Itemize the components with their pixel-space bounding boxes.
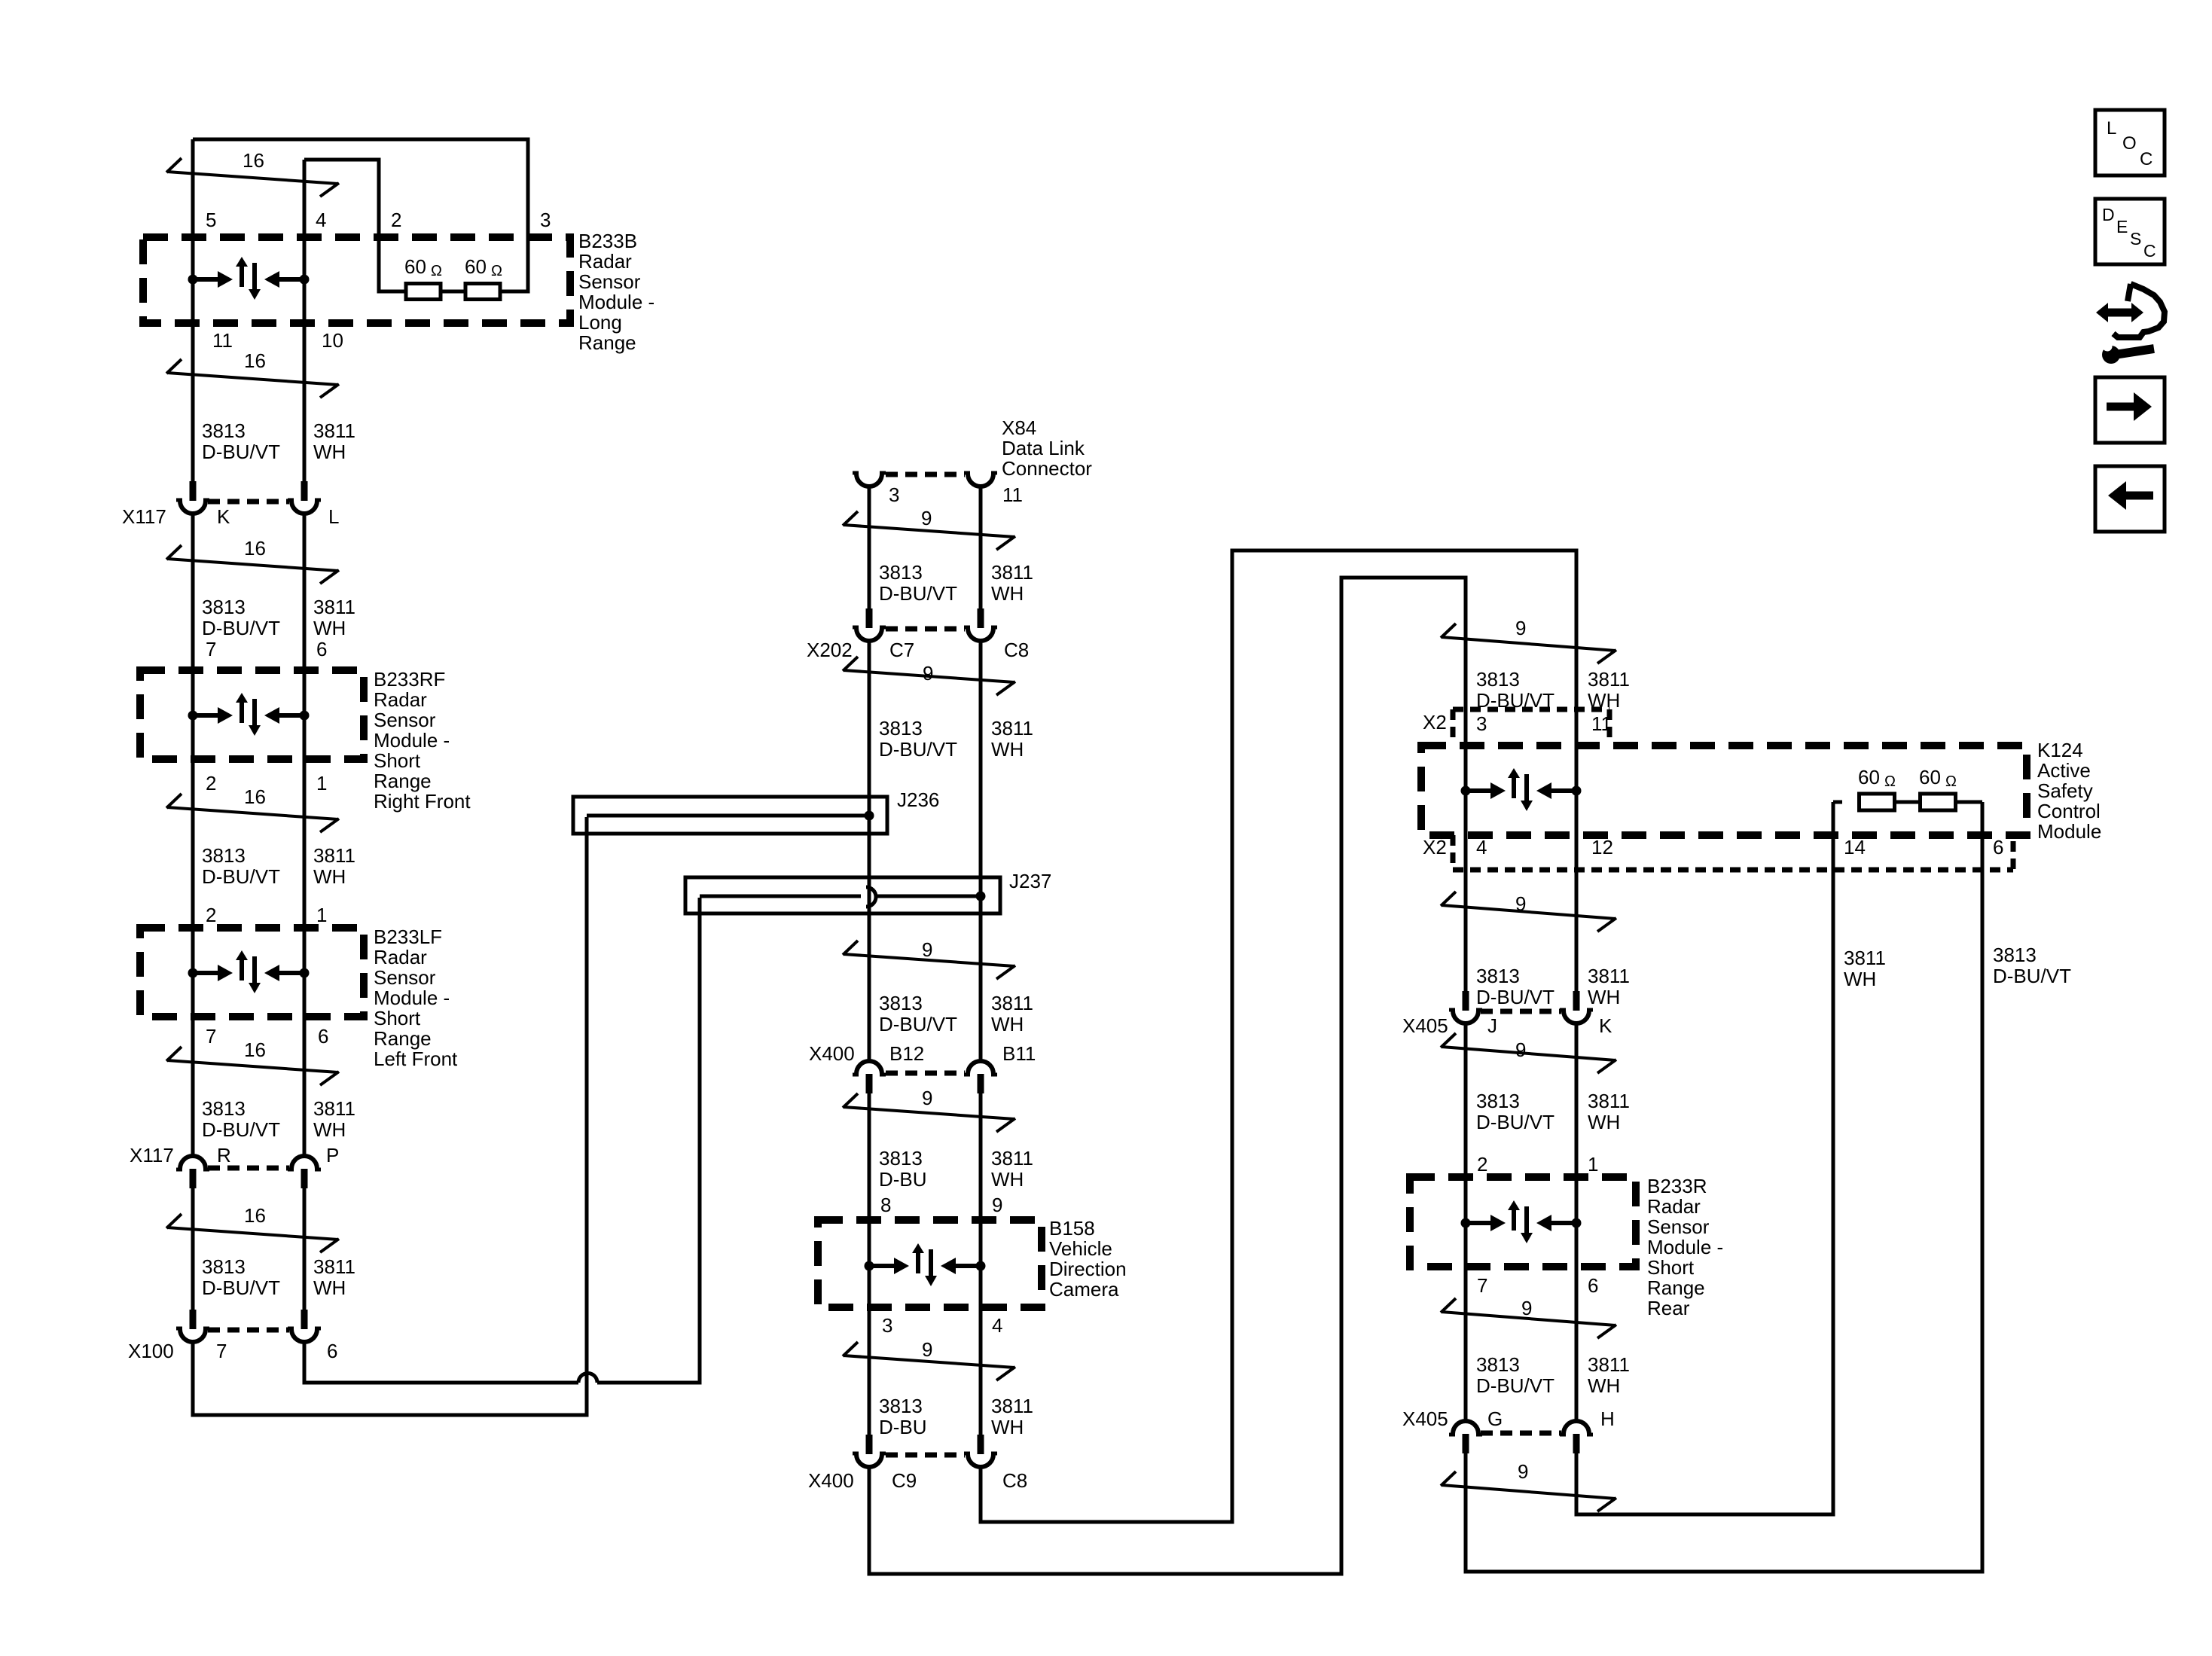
svg-text:9: 9 — [1521, 1297, 1532, 1319]
svg-text:Sensor: Sensor — [374, 709, 436, 731]
svg-text:D-BU/VT: D-BU/VT — [1476, 986, 1555, 1008]
svg-text:D: D — [2102, 205, 2115, 224]
connector X117 terminal L — [301, 481, 308, 501]
twisted pair symbol 9 — [1442, 1485, 1616, 1499]
svg-text:D-BU/VT: D-BU/VT — [1993, 965, 2071, 987]
J237 conductor hop over 3813 wire — [866, 887, 876, 907]
connector X400 terminal C9 — [866, 1435, 873, 1454]
K124 resistor conductor right — [1956, 801, 1982, 804]
twisted pair symbol 16 — [167, 373, 338, 385]
icon box DESC — [2095, 199, 2165, 264]
svg-text:B233LF: B233LF — [374, 926, 442, 948]
svg-text:Active: Active — [2037, 759, 2091, 782]
svg-text:Direction: Direction — [1049, 1258, 1127, 1280]
svg-text:Range: Range — [374, 770, 432, 792]
wire 3813 leg to resistors — [1466, 802, 1982, 1572]
connector X202 terminal C8 — [978, 608, 984, 628]
svg-text:3813: 3813 — [879, 992, 923, 1014]
bus direction symbol in B233R — [1461, 1218, 1471, 1228]
svg-text:3813: 3813 — [202, 419, 246, 442]
connector X100 dashes — [208, 1328, 289, 1333]
svg-text:3811: 3811 — [1844, 947, 1886, 969]
svg-text:Ω: Ω — [1945, 773, 1957, 790]
svg-text:X117: X117 — [130, 1144, 174, 1167]
svg-text:D-BU/VT: D-BU/VT — [1476, 1374, 1555, 1397]
svg-text:9: 9 — [992, 1194, 1002, 1216]
wire 3811 X117 to B233RF — [303, 514, 307, 670]
splice J237 bus bar box — [685, 877, 1000, 913]
svg-text:B158: B158 — [1049, 1217, 1095, 1240]
svg-text:Ω: Ω — [1884, 773, 1896, 790]
svg-text:Range: Range — [578, 331, 636, 354]
svg-text:Radar: Radar — [578, 250, 632, 273]
svg-text:C8: C8 — [1002, 1469, 1027, 1492]
svg-text:8: 8 — [880, 1194, 891, 1216]
svg-text:11: 11 — [1591, 712, 1612, 735]
svg-text:D-BU/VT: D-BU/VT — [1476, 1111, 1555, 1133]
svg-text:2: 2 — [1477, 1153, 1487, 1176]
svg-text:16: 16 — [244, 537, 266, 560]
svg-text:1: 1 — [1588, 1153, 1598, 1176]
svg-text:3813: 3813 — [202, 1255, 246, 1278]
svg-text:9: 9 — [922, 938, 932, 961]
svg-text:WH: WH — [991, 1416, 1024, 1438]
twisted pair symbol 9 — [1442, 905, 1616, 919]
svg-text:Camera: Camera — [1049, 1278, 1119, 1301]
wire 3811 through B233R — [1575, 1177, 1579, 1420]
svg-text:3811: 3811 — [1588, 1090, 1630, 1112]
svg-text:Module -: Module - — [578, 291, 654, 313]
svg-text:3811: 3811 — [1588, 668, 1630, 691]
wire 3811 right vertical B233B to X117 — [303, 160, 307, 482]
svg-text:3811: 3811 — [313, 1097, 355, 1120]
svg-text:9: 9 — [1518, 1460, 1528, 1483]
wire 3811 J237 to X400 — [979, 896, 983, 1061]
wire 3813 X117 to B233RF — [191, 514, 195, 670]
wire 3813 D-BU/VT from B233B pin 5 top loop to pin 3 — [193, 139, 528, 291]
svg-text:Left Front: Left Front — [374, 1048, 458, 1070]
connector X2 top band — [1453, 707, 1609, 712]
wire 3811 X202 to J237 — [979, 642, 983, 896]
svg-text:J237: J237 — [1009, 870, 1051, 892]
svg-text:3811: 3811 — [1588, 1353, 1630, 1376]
connector X400 terminal B11 — [968, 1061, 993, 1074]
twisted pair symbol 16 — [167, 807, 338, 819]
svg-text:Module: Module — [2037, 820, 2101, 843]
svg-text:11: 11 — [1002, 483, 1023, 506]
connector X84 terminal 11 — [968, 474, 993, 486]
svg-text:3811: 3811 — [991, 1147, 1033, 1170]
svg-text:Vehicle: Vehicle — [1049, 1237, 1112, 1260]
svg-text:Module -: Module - — [374, 987, 450, 1009]
svg-text:3813: 3813 — [879, 1395, 923, 1417]
svg-text:Connector: Connector — [1002, 457, 1092, 480]
svg-text:2: 2 — [206, 772, 216, 794]
wire 3813 X117 to X100 — [191, 1188, 195, 1310]
wire 3813 into K124 — [1464, 633, 1468, 791]
svg-text:WH: WH — [313, 1118, 346, 1141]
svg-text:3811: 3811 — [991, 561, 1033, 584]
wire 3813 X400 to B158 — [868, 1093, 871, 1220]
svg-text:6: 6 — [1993, 836, 2003, 858]
svg-text:B233R: B233R — [1647, 1175, 1707, 1197]
twisted pair symbol 9 — [844, 954, 1014, 966]
wire 3813 through B158 — [868, 1220, 871, 1436]
connector X84 dashes — [886, 472, 965, 477]
svg-text:6: 6 — [327, 1340, 337, 1362]
wire 3811 hop to J237 leg — [597, 898, 700, 1383]
junction dot J237 — [976, 892, 986, 901]
wire 3811 X117 to X100 — [303, 1188, 307, 1310]
radar sensor module B233RF dashed box — [140, 670, 364, 759]
connector X117 K-L dashes — [208, 499, 289, 505]
svg-text:L: L — [2107, 118, 2116, 139]
svg-text:3811: 3811 — [313, 596, 355, 618]
svg-text:3: 3 — [882, 1314, 892, 1337]
connector X400 B12-B11 dashes — [886, 1071, 965, 1076]
J237 bus conductor right of hop — [874, 895, 981, 898]
svg-text:Short: Short — [374, 749, 421, 772]
svg-text:3813: 3813 — [1993, 944, 2037, 966]
svg-text:O: O — [2122, 133, 2137, 154]
svg-text:16: 16 — [244, 349, 266, 372]
svg-text:Module -: Module - — [1647, 1236, 1723, 1258]
svg-text:C: C — [2140, 149, 2153, 169]
wire 3811 through B233RF — [303, 670, 307, 928]
icon box LOC — [2095, 110, 2165, 175]
svg-text:S: S — [2130, 229, 2141, 249]
twisted pair symbol 16 — [167, 1060, 338, 1072]
svg-text:D-BU/VT: D-BU/VT — [202, 1118, 280, 1141]
svg-text:1: 1 — [316, 904, 327, 926]
svg-text:Short: Short — [374, 1007, 421, 1029]
connector X400 C9-C8 dashes — [886, 1453, 965, 1458]
svg-text:G: G — [1487, 1407, 1503, 1430]
svg-text:K: K — [1599, 1014, 1612, 1037]
splice J236 bus bar box — [573, 797, 887, 834]
svg-text:7: 7 — [216, 1340, 227, 1362]
wire between B233B resistors — [441, 290, 466, 294]
svg-text:1: 1 — [316, 772, 327, 794]
active safety control module K124 dashed box — [1421, 746, 2027, 835]
wire 3813 X100 down-right to J236 leg — [193, 817, 587, 1415]
twisted pair symbol 9 — [1442, 1312, 1616, 1325]
svg-text:WH: WH — [1588, 986, 1620, 1008]
svg-text:Long: Long — [578, 311, 622, 334]
twisted pair symbol 16 — [167, 1228, 338, 1240]
svg-text:3813: 3813 — [1476, 1353, 1520, 1376]
connector X117 terminal P — [291, 1156, 317, 1169]
connector X117 terminal K — [190, 481, 197, 501]
connector X405 terminal K — [1573, 991, 1580, 1011]
twisted pair symbol 9 — [844, 670, 1014, 682]
connector X117 R-P dashes — [208, 1166, 289, 1171]
svg-text:C8: C8 — [1004, 639, 1029, 661]
wire 3813 J236 to X400 — [868, 816, 871, 1061]
svg-text:3811: 3811 — [313, 1255, 355, 1278]
connector X100 terminal 7 — [190, 1310, 197, 1329]
svg-text:16: 16 — [244, 785, 266, 808]
svg-text:Radar: Radar — [374, 946, 427, 968]
icon box left arrow — [2095, 466, 2165, 532]
svg-text:7: 7 — [1477, 1274, 1487, 1297]
svg-text:3813: 3813 — [202, 1097, 246, 1120]
svg-text:3813: 3813 — [1476, 668, 1520, 691]
svg-text:3: 3 — [540, 209, 551, 231]
svg-text:3811: 3811 — [991, 1395, 1033, 1417]
svg-text:D-BU: D-BU — [879, 1416, 927, 1438]
svg-text:B11: B11 — [1002, 1042, 1036, 1065]
J236 bus conductor — [587, 814, 869, 818]
svg-text:X202: X202 — [807, 639, 853, 661]
svg-text:3813: 3813 — [202, 596, 246, 618]
svg-text:3813: 3813 — [1476, 965, 1520, 987]
svg-text:3: 3 — [889, 483, 899, 506]
twisted pair symbol 9 — [1442, 1047, 1616, 1060]
svg-text:3811: 3811 — [1588, 965, 1630, 987]
svg-text:6: 6 — [316, 638, 327, 660]
connector X117 terminal R — [180, 1156, 206, 1169]
resistor 60 ohm (K124 left) — [1860, 794, 1895, 810]
svg-text:Safety: Safety — [2037, 779, 2093, 802]
svg-text:WH: WH — [1844, 968, 1876, 990]
svg-text:H: H — [1600, 1407, 1615, 1430]
svg-text:3811: 3811 — [991, 717, 1033, 740]
svg-text:D-BU/VT: D-BU/VT — [202, 865, 280, 888]
svg-text:WH: WH — [991, 1168, 1024, 1191]
svg-text:Rear: Rear — [1647, 1297, 1690, 1319]
wire 3813 left vertical B233B to X117 — [191, 139, 195, 482]
bus direction symbol in B158 — [865, 1261, 874, 1271]
bus direction symbol in K124 — [1461, 786, 1471, 796]
svg-text:7: 7 — [206, 1025, 216, 1048]
svg-text:X84: X84 — [1002, 416, 1036, 439]
svg-text:C7: C7 — [889, 639, 914, 661]
svg-text:Right Front: Right Front — [374, 790, 471, 813]
svg-text:9: 9 — [1515, 892, 1526, 915]
svg-text:C9: C9 — [892, 1469, 917, 1492]
connector X400 terminal C8 — [978, 1435, 984, 1454]
svg-text:WH: WH — [1588, 1374, 1620, 1397]
svg-text:WH: WH — [313, 865, 346, 888]
svg-text:3811: 3811 — [991, 992, 1033, 1014]
svg-text:Data Link: Data Link — [1002, 437, 1085, 459]
junction dot J236 — [865, 811, 874, 821]
svg-text:9: 9 — [1515, 617, 1526, 639]
wire 3813 K124 to X405 — [1464, 791, 1468, 992]
svg-text:Ω: Ω — [491, 263, 502, 279]
connector X405 terminal J — [1463, 991, 1469, 1011]
svg-text:J236: J236 — [897, 788, 939, 811]
svg-text:B233RF: B233RF — [374, 668, 445, 691]
svg-text:7: 7 — [206, 638, 216, 660]
connector X84 terminal 3 — [856, 474, 882, 486]
svg-text:60: 60 — [1858, 766, 1880, 788]
connector X202 terminal C7 — [866, 608, 873, 628]
svg-text:X405: X405 — [1402, 1407, 1448, 1430]
wire 3811 leg to resistors — [1576, 802, 1833, 1514]
connector X405 terminal G — [1453, 1421, 1478, 1434]
svg-text:J: J — [1487, 1014, 1497, 1037]
svg-text:WH: WH — [313, 441, 346, 463]
resistor 60 ohm (B233B right) — [465, 284, 500, 300]
svg-text:9: 9 — [922, 1338, 932, 1361]
wire 3811 X400-C8 route to right chain — [981, 550, 1576, 1522]
wire 3813 through B233RF — [191, 670, 195, 928]
radar sensor module B233B dashed box — [143, 237, 570, 323]
svg-text:X100: X100 — [128, 1340, 174, 1362]
bus direction symbol in B233RF — [188, 711, 198, 721]
svg-text:WH: WH — [313, 1276, 346, 1299]
wire 3811 X405 to B233R — [1575, 1024, 1579, 1177]
svg-text:X400: X400 — [809, 1042, 855, 1065]
svg-text:X117: X117 — [122, 505, 166, 528]
svg-text:3: 3 — [1476, 712, 1487, 735]
twisted pair symbol 9 — [844, 525, 1014, 537]
twisted pair symbol 9 — [1442, 637, 1616, 651]
connector X405 terminal H — [1564, 1421, 1589, 1434]
svg-text:5: 5 — [206, 209, 216, 231]
svg-text:D-BU/VT: D-BU/VT — [202, 1276, 280, 1299]
wire 3811 into K124 — [1575, 633, 1579, 791]
svg-text:Ω: Ω — [431, 263, 442, 279]
svg-text:WH: WH — [991, 1013, 1024, 1035]
svg-text:D-BU/VT: D-BU/VT — [202, 617, 280, 639]
svg-text:60: 60 — [404, 255, 426, 278]
svg-text:3813: 3813 — [1476, 1090, 1520, 1112]
radar sensor module B233R dashed box — [1410, 1177, 1636, 1267]
svg-text:4: 4 — [992, 1314, 1002, 1337]
svg-text:WH: WH — [1588, 1111, 1620, 1133]
connector X100 terminal 6 — [301, 1310, 308, 1329]
svg-text:Sensor: Sensor — [578, 270, 641, 293]
resistor 60 ohm (K124 right) — [1921, 794, 1956, 810]
svg-text:D-BU/VT: D-BU/VT — [879, 738, 957, 761]
svg-text:60: 60 — [465, 255, 487, 278]
svg-text:WH: WH — [991, 582, 1024, 605]
bus direction symbol in B233LF — [188, 968, 198, 978]
svg-text:X400: X400 — [808, 1469, 854, 1492]
svg-text:60: 60 — [1919, 766, 1941, 788]
vehicle direction camera B158 dashed box — [818, 1220, 1042, 1307]
wire hop over J236 leg — [578, 1373, 597, 1383]
svg-text:P: P — [326, 1144, 339, 1167]
svg-text:R: R — [217, 1144, 231, 1167]
svg-text:X2: X2 — [1423, 711, 1447, 733]
twisted pair symbol 16 — [167, 559, 338, 571]
svg-text:9: 9 — [922, 1087, 932, 1109]
K124 resistor conductor left — [1833, 801, 1842, 804]
svg-text:K: K — [217, 505, 230, 528]
bus direction symbol in B233B — [188, 275, 198, 285]
svg-text:4: 4 — [316, 209, 326, 231]
svg-text:B12: B12 — [889, 1042, 924, 1065]
wire 3813 through B233R — [1464, 1177, 1468, 1420]
svg-text:Sensor: Sensor — [1647, 1215, 1710, 1238]
svg-text:3811: 3811 — [313, 844, 355, 867]
wire 3811 through B158 — [979, 1220, 983, 1436]
wire 3813 X405 to B233R — [1464, 1024, 1468, 1177]
svg-text:16: 16 — [244, 1204, 266, 1227]
wire 3813 X400-C9 route to right chain — [869, 578, 1466, 1574]
svg-text:B233B: B233B — [578, 230, 637, 252]
icon box right arrow — [2095, 377, 2165, 443]
svg-text:E: E — [2116, 217, 2128, 236]
svg-text:Range: Range — [374, 1027, 432, 1050]
wire 3811 X400 to B158 — [979, 1093, 983, 1220]
wire 3811 X100 right to hop — [304, 1343, 578, 1383]
svg-text:12: 12 — [1591, 836, 1613, 858]
svg-text:Radar: Radar — [374, 688, 427, 711]
wire 3811 X84 to X202 — [979, 486, 983, 609]
svg-text:3811: 3811 — [313, 419, 355, 442]
wire 3811 WH from B233B pin 4 loop to pin 2 — [304, 160, 404, 291]
svg-text:2: 2 — [206, 904, 216, 926]
svg-text:3813: 3813 — [202, 844, 246, 867]
svg-text:3813: 3813 — [879, 717, 923, 740]
svg-text:14: 14 — [1844, 836, 1866, 858]
resistor 60 ohm (B233B left) — [406, 284, 441, 300]
svg-text:11: 11 — [212, 329, 233, 352]
connector X202 dashes — [886, 627, 965, 632]
svg-text:X2: X2 — [1423, 836, 1447, 858]
twisted pair symbol 9 — [844, 1356, 1014, 1368]
svg-text:2: 2 — [391, 209, 401, 231]
svg-text:3813: 3813 — [879, 561, 923, 584]
svg-text:6: 6 — [1588, 1274, 1598, 1297]
icon double arrow with hood and wrench — [2107, 309, 2133, 317]
svg-text:L: L — [328, 505, 339, 528]
svg-text:3813: 3813 — [879, 1147, 923, 1170]
svg-text:X405: X405 — [1402, 1014, 1448, 1037]
svg-text:16: 16 — [243, 149, 264, 172]
svg-text:Control: Control — [2037, 800, 2101, 822]
connector X405 J-K dashes — [1481, 1009, 1561, 1014]
svg-text:Short: Short — [1647, 1256, 1695, 1279]
connector X405 G-H dashes — [1481, 1431, 1561, 1436]
wire 3813 X202 to J236 — [868, 642, 871, 816]
svg-text:Radar: Radar — [1647, 1195, 1701, 1218]
svg-text:C: C — [2143, 241, 2156, 261]
svg-text:4: 4 — [1476, 836, 1487, 858]
svg-text:16: 16 — [244, 1038, 266, 1061]
connector X2 bottom band — [1453, 868, 2013, 873]
svg-text:WH: WH — [991, 738, 1024, 761]
svg-text:Sensor: Sensor — [374, 966, 436, 989]
connector X400 terminal B12 — [856, 1061, 882, 1074]
wire 3811 through B233LF — [303, 928, 307, 1156]
wire between K124 resistors — [1895, 801, 1921, 804]
svg-text:K124: K124 — [2037, 739, 2083, 761]
svg-text:10: 10 — [322, 329, 343, 352]
wire 3813 through B233LF — [191, 928, 195, 1156]
twisted pair symbol 9 — [844, 1107, 1014, 1119]
twisted pair symbol 16 (top) — [167, 172, 338, 184]
svg-text:Range: Range — [1647, 1276, 1705, 1299]
svg-text:9: 9 — [923, 662, 933, 685]
svg-text:WH: WH — [313, 617, 346, 639]
svg-text:D-BU/VT: D-BU/VT — [879, 582, 957, 605]
radar sensor module B233LF dashed box — [140, 928, 364, 1017]
wire 3813 X84 to X202 — [868, 486, 871, 609]
svg-text:D-BU/VT: D-BU/VT — [202, 441, 280, 463]
wire 3811 K124 to X405 — [1575, 791, 1579, 992]
svg-text:6: 6 — [318, 1025, 328, 1048]
svg-text:9: 9 — [921, 507, 932, 529]
svg-text:D-BU: D-BU — [879, 1168, 927, 1191]
svg-text:Module -: Module - — [374, 729, 450, 752]
svg-text:9: 9 — [1515, 1038, 1526, 1061]
